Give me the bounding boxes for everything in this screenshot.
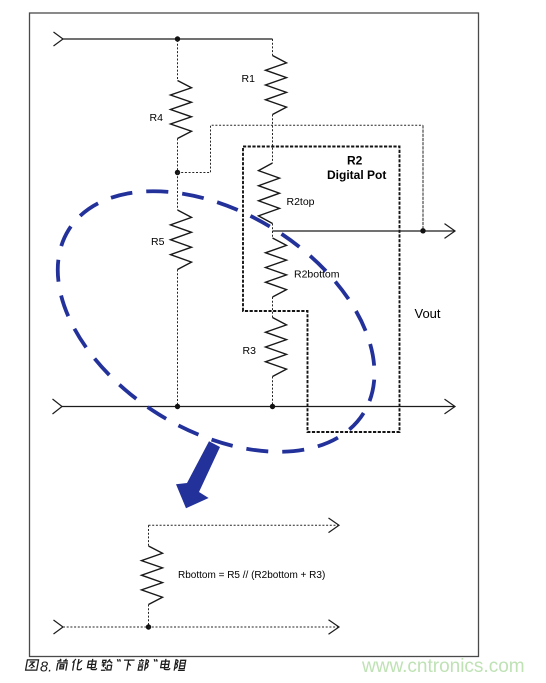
wire R3 bottom lead bbox=[272, 377, 274, 407]
output arrowhead simplified bottom bbox=[329, 620, 340, 635]
node top rail / R4 junction bbox=[175, 36, 180, 41]
input arrowhead bottom-left bbox=[53, 399, 63, 414]
caption glyph 化 bbox=[71, 659, 83, 671]
wire Rbottom top lead bbox=[148, 525, 150, 546]
resistor R1 bbox=[266, 56, 287, 115]
svg-text:R1: R1 bbox=[242, 73, 256, 85]
input arrowhead simplified bottom-left bbox=[54, 620, 64, 634]
wire R5 top lead bbox=[177, 173, 179, 211]
blue arrow bbox=[176, 441, 220, 508]
R2 digital pot dashed box bbox=[243, 147, 400, 433]
simplified circuit bottom rail bbox=[63, 626, 339, 628]
svg-text:R2bottom: R2bottom bbox=[294, 269, 340, 281]
resistor R3 bbox=[266, 318, 287, 377]
node R4/R5 junction bbox=[175, 170, 180, 175]
output arrowhead simplified top bbox=[329, 518, 340, 533]
caption glyph 下 bbox=[122, 660, 134, 670]
caption glyph 图 bbox=[26, 660, 39, 670]
wire R5 bottom lead bbox=[177, 270, 179, 407]
caption glyph 简 bbox=[56, 659, 69, 671]
svg-text:Vout: Vout bbox=[415, 306, 441, 321]
svg-text:www.cntronics.com: www.cntronics.com bbox=[361, 656, 525, 677]
caption glyph 部 bbox=[137, 659, 149, 671]
caption glyph 阻 bbox=[174, 659, 187, 670]
svg-text:R2: R2 bbox=[347, 154, 363, 168]
highlight ellipse (blue dashed) bbox=[11, 137, 421, 505]
svg-text:Rbottom = R5 // (R2bottom + R3: Rbottom = R5 // (R2bottom + R3) bbox=[178, 570, 325, 581]
wire route vertical to wiper junction bbox=[422, 125, 424, 231]
wire R2top bottom lead bbox=[272, 224, 274, 232]
simplified circuit top wire bbox=[149, 524, 340, 526]
resistor R2bottom bbox=[266, 238, 287, 297]
svg-text:R2top: R2top bbox=[287, 196, 315, 208]
caption glyph ” bbox=[154, 659, 158, 661]
svg-text:R5: R5 bbox=[151, 236, 165, 248]
svg-text:Digital Pot: Digital Pot bbox=[327, 168, 386, 182]
node R3/rail bbox=[270, 404, 275, 409]
caption vector CJK: 图8. 简化电路"下部"电阻 bbox=[26, 659, 187, 671]
caption glyph “ bbox=[117, 659, 121, 661]
node Rbottom/rail bbox=[146, 624, 151, 629]
caption glyph 电 bbox=[87, 659, 98, 670]
caption glyph 电 bbox=[160, 659, 171, 670]
node R5/rail bbox=[175, 404, 180, 409]
figure border frame bbox=[30, 13, 479, 657]
wire R2bottom to R3 lead bbox=[272, 297, 274, 318]
resistor R5 bbox=[171, 210, 192, 270]
input arrowhead top-left bbox=[54, 32, 64, 46]
wire R1 top lead bbox=[272, 39, 274, 56]
node wiper/route junction bbox=[420, 228, 425, 233]
wire Rbottom bottom lead bbox=[148, 605, 150, 628]
output arrowhead bottom rail bbox=[445, 399, 456, 414]
svg-text:8.: 8. bbox=[40, 659, 52, 675]
resistor Rbottom bbox=[142, 546, 163, 605]
wire R4 bottom lead bbox=[177, 139, 179, 173]
wire R2bottom top lead bbox=[272, 231, 274, 238]
wire top rail bbox=[63, 38, 273, 40]
caption glyph 路 bbox=[101, 659, 113, 670]
wire bottom rail bbox=[62, 406, 455, 408]
resistor R4 bbox=[171, 81, 192, 139]
output arrowhead wiper bbox=[445, 224, 456, 239]
svg-text:R3: R3 bbox=[243, 345, 257, 357]
svg-text:R4: R4 bbox=[150, 112, 164, 124]
wire R4 top lead bbox=[177, 40, 179, 81]
wire wiper output line bbox=[273, 230, 456, 232]
wire R1 to R2top lead bbox=[272, 115, 274, 164]
wire dotted route junction to wiper net bbox=[178, 125, 424, 172]
resistor R2top bbox=[259, 163, 280, 224]
